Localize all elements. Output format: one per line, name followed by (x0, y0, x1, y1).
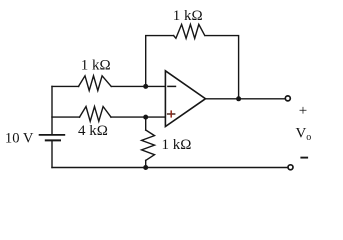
wire feedback right segment down to output node (206, 36, 239, 99)
wire row2 right lead to op-amp (111, 116, 165, 118)
node B junction dot (non-inverting input / 1 kOhm) (143, 115, 148, 120)
label output terminal minus (300, 157, 308, 159)
svg-text:1 kΩ: 1 kΩ (81, 58, 111, 74)
wire vertical resistor bottom lead (145, 160, 147, 167)
resistor 4 kOhm zigzag (80, 107, 112, 122)
battery V1 10 V short plate (46, 139, 60, 141)
wire output to terminal (206, 98, 285, 100)
node D junction dot (bottom rail / 1 kOhm) (143, 165, 148, 170)
svg-text:4 kΩ: 4 kΩ (78, 123, 108, 139)
op-amp non-inverting input plus sign (167, 110, 176, 117)
resistor 1 kOhm (feedback) zigzag (174, 24, 205, 38)
node A junction dot (inverting input / feedback) (143, 84, 148, 89)
svg-text:V: V (296, 126, 307, 142)
svg-text:+: + (299, 103, 307, 119)
svg-text:1 kΩ: 1 kΩ (173, 8, 203, 24)
resistor 1 kOhm (to ground rail) vertical zigzag (142, 130, 155, 160)
svg-text:o: o (306, 132, 311, 143)
node C junction dot (output / feedback) (236, 96, 241, 101)
op-amp inverting input minus sign (167, 85, 176, 87)
wire + input node down lead (145, 117, 147, 130)
terminal + open circle (285, 96, 290, 101)
wire left rail lower (battery bottom to bottom rail) (51, 142, 53, 168)
wire row2 left lead (52, 116, 80, 118)
wire bottom rail (52, 167, 287, 169)
wire feedback loop (up, across, down) (146, 36, 174, 87)
svg-text:1 kΩ: 1 kΩ (162, 137, 192, 153)
wire row1 left lead (52, 85, 79, 87)
terminal - open circle (288, 165, 293, 170)
wire left rail upper (battery top to input rows) (51, 86, 53, 133)
svg-text:10 V: 10 V (5, 131, 34, 147)
resistor 1 kOhm (series, inverting input) zigzag (79, 76, 112, 91)
op-amp U1 triangle (165, 71, 205, 127)
battery V1 10 V long plate (40, 134, 65, 136)
wire row1 right lead to op-amp (111, 85, 165, 87)
